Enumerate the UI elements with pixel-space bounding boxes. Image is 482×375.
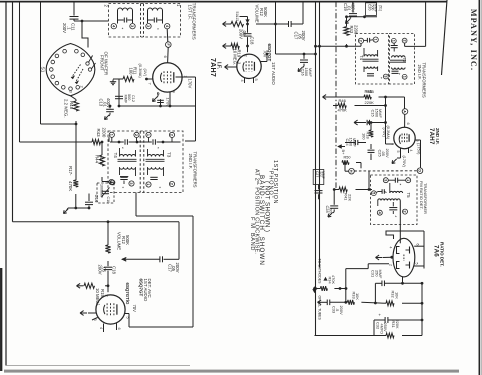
svg-text:200V: 200V bbox=[385, 149, 390, 158]
svg-text:*: * bbox=[399, 72, 401, 77]
wire y=268.6 bbox=[346, 268, 368, 270]
bottom cathode bus with R31 220K in series bbox=[315, 335, 387, 337]
T4 bottom capacitor and pins bbox=[120, 176, 128, 178]
svg-text:51&13: 51&13 bbox=[235, 12, 239, 22]
vertical riser x=345.8 bbox=[345, 269, 347, 303]
svg-text:(0.3MA): (0.3MA) bbox=[386, 126, 390, 140]
svg-text:C14: C14 bbox=[94, 195, 99, 203]
wire y=97 with chassis arrow to V4 plate line bbox=[323, 96, 330, 98]
svg-text:T3: T3 bbox=[402, 58, 407, 64]
svg-text:TRANSFORMERS: TRANSFORMERS bbox=[193, 152, 198, 188]
svg-text:FRONT: FRONT bbox=[99, 55, 104, 71]
svg-text:3: 3 bbox=[93, 319, 97, 321]
circled pin 1 (FM T3) bbox=[391, 38, 396, 43]
tube V2 6SQ7GT 1st audio bbox=[237, 54, 261, 78]
svg-text:1ST I.F.: 1ST I.F. bbox=[187, 5, 192, 20]
V2 grid stub with chassis arrow (left) bbox=[232, 66, 237, 68]
svg-text:MMF: MMF bbox=[378, 109, 383, 118]
svg-text:F: F bbox=[166, 43, 170, 46]
svg-text:MMF: MMF bbox=[378, 270, 383, 279]
volume control R12 500K (upper) with chassis arrow bbox=[223, 23, 230, 25]
circled pin 2 (FM T4) bbox=[358, 38, 363, 43]
capacitor C12 500MMF bbox=[115, 95, 123, 97]
volume wiper tap bbox=[246, 23, 249, 26]
svg-text:C12: C12 bbox=[131, 95, 135, 102]
svg-text:MMF: MMF bbox=[321, 171, 325, 179]
svg-text:5: 5 bbox=[254, 79, 258, 81]
svg-text:47K: 47K bbox=[99, 157, 104, 165]
2nd IF transformers dashed box bbox=[108, 131, 183, 193]
svg-text:22K: 22K bbox=[348, 194, 353, 201]
2nd IF box centre dashed dividers bbox=[139, 131, 141, 193]
main junction bus under V1 bbox=[118, 105, 121, 108]
svg-text:3: 3 bbox=[383, 75, 387, 77]
svg-text:200V: 200V bbox=[238, 29, 243, 39]
svg-text:3: 3 bbox=[69, 91, 74, 94]
svg-text:100: 100 bbox=[362, 133, 367, 140]
svg-text:*: * bbox=[122, 186, 124, 191]
1st IF primary coil bbox=[118, 8, 133, 10]
svg-text:MPANY, INC.: MPANY, INC. bbox=[469, 9, 478, 71]
svg-text:500K: 500K bbox=[125, 235, 130, 245]
svg-text:400V: 400V bbox=[350, 3, 355, 13]
T5 bottom capacitor and pins bbox=[389, 207, 397, 209]
svg-text:2: 2 bbox=[104, 5, 109, 8]
svg-text:2: 2 bbox=[243, 55, 248, 58]
circled terminal H with dashed link to D bbox=[349, 168, 355, 174]
svg-text:T4: T4 bbox=[359, 55, 364, 61]
switch contact circles bbox=[63, 49, 67, 53]
wire bus down to volume control bbox=[107, 222, 109, 245]
vertical link R45/R46 junctions down to V4 grid bbox=[385, 97, 387, 144]
svg-text:1: 1 bbox=[146, 183, 150, 185]
FM T4 pin capacitor bbox=[366, 38, 368, 43]
resistor R11 100 at V1 grid return bbox=[123, 76, 134, 81]
svg-text:*: * bbox=[122, 146, 124, 151]
FM 2nd IF transformer T3 dashed box bbox=[390, 34, 415, 85]
main vertical bus wire B+ (left of pair) bbox=[315, 2, 317, 336]
svg-text:(1V): (1V) bbox=[143, 69, 148, 77]
svg-text:6: 6 bbox=[117, 328, 121, 330]
svg-text:2: 2 bbox=[105, 295, 110, 298]
tube V1 7AH7 I.F. bbox=[153, 63, 182, 92]
svg-text:TRANSFORMERS: TRANSFORMERS bbox=[192, 3, 197, 40]
svg-text:5: 5 bbox=[396, 151, 400, 153]
page frame: left inner border line (turns into bus at y=222) bbox=[12, 1, 14, 222]
svg-text:S1: S1 bbox=[40, 67, 46, 73]
svg-text:OF ALL TUBES: OF ALL TUBES bbox=[317, 296, 321, 321]
circled terminal F bbox=[166, 42, 172, 48]
svg-text:200V: 200V bbox=[62, 23, 67, 33]
FM 2nd IF transformer T4 dashed box bbox=[356, 34, 389, 85]
svg-text:*: * bbox=[122, 27, 124, 32]
svg-text:6SQ7GT/G: 6SQ7GT/G bbox=[125, 283, 130, 306]
V5 grid stub with chassis arrow bbox=[390, 256, 393, 259]
band switch S1 wafer outline bbox=[46, 44, 95, 96]
svg-text:2.2 MEG.: 2.2 MEG. bbox=[64, 99, 69, 118]
T5 secondary long coil bbox=[378, 199, 400, 201]
V4 plate wire down to circled D bbox=[415, 139, 421, 141]
capacitor C18 .05 200V (lower) bbox=[107, 261, 109, 266]
circled pin 4 on trimmer box bbox=[110, 180, 115, 185]
trimmer C10 100MMF dashed box bbox=[97, 183, 114, 203]
resistor R33 10K bbox=[346, 301, 348, 303]
tube V5 7A6 ratio det (oval envelope) bbox=[393, 238, 415, 277]
svg-text:6: 6 bbox=[163, 56, 168, 59]
wire F to V1 grid bbox=[167, 47, 170, 62]
1st IF primary capacitor bbox=[118, 19, 124, 21]
svg-text:6: 6 bbox=[416, 244, 420, 246]
svg-text:220K: 220K bbox=[395, 320, 400, 329]
wire vertical from top border to R43 bus bbox=[19, 2, 21, 142]
svg-text:100: 100 bbox=[128, 68, 133, 76]
wire vertical from top border to R48 junction bbox=[40, 2, 42, 124]
V1 plate wire to 2nd IF transformer bbox=[176, 76, 196, 78]
svg-text:3: 3 bbox=[146, 25, 150, 27]
svg-text:200V: 200V bbox=[97, 265, 102, 275]
capacitor C28 .005 with chassis arrow bbox=[333, 190, 335, 205]
svg-text:2: 2 bbox=[402, 40, 406, 42]
circled pins 3 and 4 (secondary) bbox=[147, 20, 149, 23]
junction R48 bottom / wire to left vertical bbox=[75, 123, 78, 126]
svg-text:T3: T3 bbox=[166, 152, 171, 158]
svg-text:1: 1 bbox=[402, 76, 406, 78]
svg-text:(175V): (175V) bbox=[416, 143, 420, 155]
V5 cathode stub down to C31 wire bbox=[402, 277, 404, 284]
svg-text:H: H bbox=[349, 170, 353, 173]
svg-text:R11: R11 bbox=[133, 67, 138, 75]
svg-text:10 MEG.: 10 MEG. bbox=[232, 49, 237, 66]
resistor R15 10MEG with ground bbox=[107, 284, 110, 287]
svg-text:OF WAFER: OF WAFER bbox=[104, 52, 109, 76]
circled pin 1 (T5 top) bbox=[406, 178, 411, 183]
svg-text:470K: 470K bbox=[68, 181, 73, 191]
1st IF secondary capacitor bbox=[148, 19, 154, 21]
svg-text:10K: 10K bbox=[394, 292, 399, 299]
vertical from C31 down to R33 row bbox=[374, 283, 376, 303]
capacitor C14 bbox=[88, 207, 91, 210]
svg-text:TO CATHODES: TO CATHODES bbox=[317, 259, 321, 285]
svg-text:A: A bbox=[403, 110, 407, 113]
svg-text:2: 2 bbox=[134, 134, 138, 136]
svg-text:R44: R44 bbox=[95, 155, 100, 164]
B+ arrow tap bbox=[338, 146, 345, 148]
V1 cathode stub pin3 ground bbox=[157, 92, 159, 96]
capacitor C17 .05 200V (upper) to top border bbox=[288, 21, 290, 27]
svg-text:C18: C18 bbox=[112, 266, 117, 274]
chassis partition dash-dot line bbox=[335, 2, 337, 188]
svg-text:TRANSFORMER: TRANSFORMER bbox=[423, 183, 428, 214]
svg-text:70V: 70V bbox=[132, 305, 137, 313]
svg-text:4: 4 bbox=[240, 80, 244, 82]
FM T3 coil with core bbox=[392, 56, 406, 58]
circled pin 2 (T4 top) bbox=[134, 132, 139, 137]
svg-text:1: 1 bbox=[146, 134, 150, 136]
audio coupling loop right side bbox=[178, 222, 180, 259]
svg-text:470K: 470K bbox=[331, 275, 336, 284]
svg-text:DET. AVC: DET. AVC bbox=[147, 279, 152, 298]
svg-text:5: 5 bbox=[371, 192, 375, 194]
1st IF box centre dashed divider bbox=[140, 4, 142, 38]
capacitor C16 1500MMF with chassis arrow bbox=[303, 53, 306, 56]
FM T3 bottom capacitor and pin bbox=[392, 70, 399, 72]
page frame: skewed column-edge line top right bbox=[442, 0, 448, 75]
resistor R19 10MEG grid leak with chassis arrow bbox=[246, 45, 249, 48]
circled pin 1 (T4 top) bbox=[109, 132, 114, 137]
svg-text:2ND I.F.: 2ND I.F. bbox=[435, 128, 440, 145]
svg-text:+: + bbox=[377, 314, 382, 317]
capacitor C11 (.1 200V) bbox=[73, 2, 75, 16]
wire bus to FM IF transformer bbox=[316, 45, 362, 47]
wire C11 junction to 1st IF box bbox=[82, 20, 109, 22]
tube V4 7AH7 2nd IF bbox=[394, 127, 415, 148]
svg-text:1: 1 bbox=[406, 179, 410, 181]
capacitor C25 .05 200V bbox=[368, 149, 375, 151]
V1 pin4 stub to bus bbox=[169, 92, 171, 106]
V3 grid return ground (left) bbox=[88, 312, 96, 314]
svg-text:.005: .005 bbox=[328, 207, 333, 215]
svg-text:1: 1 bbox=[97, 304, 101, 306]
svg-text:R50: R50 bbox=[344, 156, 351, 160]
svg-text:2ND I.F.: 2ND I.F. bbox=[188, 154, 193, 170]
wire from volume junction down and right (plate supply loop) bbox=[275, 2, 277, 54]
audio coupling loop bottom with C17 bbox=[164, 258, 180, 260]
wire through T4/T3 with series capacitors bbox=[110, 141, 124, 143]
svg-text:2: 2 bbox=[403, 211, 407, 213]
junction volume to C17 coupling bbox=[274, 23, 277, 26]
V3 bottom pin stubs bbox=[103, 324, 105, 333]
wire C19 junction bbox=[347, 16, 378, 18]
svg-text:1: 1 bbox=[109, 134, 113, 136]
svg-text:MMF: MMF bbox=[124, 95, 128, 104]
svg-text:4: 4 bbox=[389, 247, 393, 249]
svg-text:6: 6 bbox=[406, 123, 410, 125]
circled pin 5 (T5 left) bbox=[371, 191, 376, 196]
resistor R48 2.2MEG bbox=[71, 96, 77, 100]
svg-text:2: 2 bbox=[170, 183, 174, 185]
capacitor C33 .5 200V with chassis arrow bbox=[318, 301, 325, 303]
svg-text:70V: 70V bbox=[263, 50, 268, 58]
svg-text:2: 2 bbox=[389, 264, 393, 266]
svg-text:2: 2 bbox=[359, 40, 363, 42]
T5 top capacitor bbox=[388, 179, 395, 181]
T5 primary coil bbox=[390, 191, 403, 193]
main bus wire y=222 from left border bbox=[13, 221, 180, 223]
svg-text:*: * bbox=[400, 183, 402, 188]
svg-text:*: * bbox=[381, 76, 383, 81]
circled pin 2 (T3 top) bbox=[169, 132, 174, 137]
wire R48 junction down to R17 bbox=[75, 124, 77, 180]
FM T4 bottom capacitor and pin bbox=[367, 73, 374, 75]
V2 plate stub to supply loop bbox=[260, 61, 267, 63]
pin stubs from circles to wire bbox=[111, 137, 113, 142]
circled pin 2 (FM T3) bbox=[402, 38, 407, 43]
svg-text:(75V): (75V) bbox=[382, 128, 386, 138]
svg-text:4: 4 bbox=[171, 91, 176, 94]
V5 right-side box wires pin6/pin5 bbox=[400, 230, 424, 232]
resistor R43 2200 bbox=[92, 139, 100, 144]
V1 cathode bypass capacitor bbox=[160, 99, 162, 106]
svg-text:1ST AUDIO: 1ST AUDIO bbox=[271, 62, 276, 85]
wire R11 junction down to C12/C13 bus bbox=[118, 79, 120, 106]
page frame: left outer border line bbox=[5, 1, 7, 366]
switch rotor dashed arrows bbox=[76, 69, 84, 83]
circled terminal D bbox=[417, 168, 423, 174]
page frame: right margin grey edge bbox=[481, 0, 482, 375]
svg-text:*: * bbox=[157, 146, 159, 151]
tube V3 6SQ7GT det-avc-1st audio bbox=[96, 295, 125, 324]
svg-text:D: D bbox=[418, 169, 422, 172]
resistor R17-470K bbox=[73, 180, 78, 187]
svg-text:*: * bbox=[159, 186, 161, 191]
wire bus to R43 bbox=[20, 141, 93, 143]
svg-text:4: 4 bbox=[99, 327, 103, 329]
svg-text:7: 7 bbox=[148, 83, 153, 86]
capacitor C18 .05 (upper) in wiper line bbox=[247, 24, 249, 33]
circled pin 1 (FM T4) bbox=[373, 37, 378, 42]
svg-text:1: 1 bbox=[373, 39, 377, 41]
V5 feed jog from T5 to grid bbox=[386, 231, 400, 239]
svg-text:2: 2 bbox=[170, 134, 174, 136]
svg-text:200V: 200V bbox=[339, 306, 344, 315]
svg-text:3: 3 bbox=[383, 179, 387, 181]
capacitor C19 .01 400V from top border bbox=[352, 2, 354, 13]
svg-text:MMF: MMF bbox=[308, 68, 313, 77]
svg-text:R43: R43 bbox=[96, 129, 101, 138]
svg-text:F M BAND: F M BAND bbox=[249, 217, 255, 251]
resistor R44 47K hanging from bus bbox=[101, 141, 104, 144]
circled pin 3 (T5 top) bbox=[383, 178, 388, 183]
audio outer wire from 2nd IF box down and around bbox=[135, 193, 137, 217]
svg-text:3: 3 bbox=[237, 62, 241, 64]
T4 transformer coils with core bbox=[120, 155, 136, 157]
svg-text:170V: 170V bbox=[166, 98, 171, 108]
svg-text:250V: 250V bbox=[383, 323, 388, 332]
svg-text:10K: 10K bbox=[355, 293, 360, 300]
svg-text:4: 4 bbox=[409, 150, 413, 152]
svg-text:500K: 500K bbox=[263, 7, 268, 17]
svg-text:5: 5 bbox=[126, 317, 130, 319]
wire C11 junction down to band switch bbox=[82, 21, 88, 48]
wire from x=368 elbow to V5 bbox=[368, 263, 389, 265]
V3 plate wire to output (pin 5) bbox=[125, 313, 129, 315]
svg-text:*: * bbox=[395, 215, 397, 220]
V2 bottom pin stubs bbox=[244, 78, 246, 84]
svg-text:T4: T4 bbox=[113, 153, 118, 159]
svg-text:100MMF: 100MMF bbox=[100, 184, 104, 199]
V5 internals: diode plates and cathodes bbox=[397, 247, 400, 254]
svg-text:7: 7 bbox=[389, 143, 393, 145]
resistor R18 100 bbox=[370, 121, 373, 124]
1st IF transformers dashed box bbox=[109, 4, 181, 38]
svg-text:200V: 200V bbox=[175, 263, 180, 273]
T3 bottom capacitor and pins bbox=[150, 176, 157, 178]
right riser x=422 with junctions bbox=[421, 283, 423, 335]
svg-text:4: 4 bbox=[111, 25, 115, 28]
switch wiper contacts and leads bbox=[86, 62, 89, 65]
svg-text:1: 1 bbox=[391, 40, 395, 42]
1st IF secondary coil bbox=[148, 8, 163, 10]
svg-text:7AH7: 7AH7 bbox=[209, 58, 216, 77]
T5 FM ratio det transformer dashed box bbox=[371, 175, 418, 225]
svg-text:MMF: MMF bbox=[374, 4, 378, 12]
svg-text:R17-: R17- bbox=[68, 166, 73, 176]
volume control R12 500K bbox=[105, 245, 110, 253]
svg-text:R45: R45 bbox=[367, 89, 375, 94]
svg-text:(170V): (170V) bbox=[402, 156, 406, 168]
capacitor C31 250MMF in cathode line bbox=[375, 282, 382, 284]
resistor R43 2200 (FM plate load) bbox=[346, 17, 348, 27]
svg-text:2: 2 bbox=[80, 86, 85, 89]
capacitor C13 .01 400V with ground bbox=[109, 106, 111, 108]
page frame: scan edge black strip bottom-left bbox=[0, 268, 2, 371]
resistor R45 220K bbox=[364, 95, 371, 100]
svg-text:MMF: MMF bbox=[352, 138, 357, 147]
svg-text:RATIO DET.: RATIO DET. bbox=[440, 242, 445, 267]
FM T3 top capacitor bbox=[391, 45, 398, 47]
svg-text:3: 3 bbox=[130, 25, 134, 27]
circled pin 1 (T3 top) bbox=[146, 132, 151, 137]
page frame: bottom grey scan bar bbox=[4, 370, 459, 373]
capacitor C24 1500MMF bbox=[345, 142, 355, 144]
junction of detector riser bbox=[368, 188, 371, 191]
svg-text:7AH7: 7AH7 bbox=[428, 128, 435, 145]
junction and ground below R17 bbox=[74, 207, 77, 210]
C19 chassis arrow bbox=[346, 19, 351, 24]
circled terminal A above V4 bbox=[404, 97, 406, 109]
V4 cathode stubs with ground bbox=[400, 148, 402, 158]
electrolytic C32 4MFD 250V bbox=[374, 319, 385, 321]
main vertical bus wire (right of pair) bbox=[319, 2, 321, 268]
svg-text:*: * bbox=[157, 27, 159, 32]
capacitor C15 1500MMF with chassis arrow bbox=[354, 122, 361, 124]
wire FM T3 pin2 to plate supply riser bbox=[404, 43, 406, 46]
svg-text:4: 4 bbox=[165, 25, 169, 28]
svg-text:3: 3 bbox=[129, 182, 133, 184]
svg-text:7A6: 7A6 bbox=[433, 245, 440, 257]
circled pins 4 and 3 (primary) bbox=[117, 20, 119, 24]
page frame: right border line bbox=[478, 0, 480, 375]
svg-text:B+: B+ bbox=[341, 150, 346, 156]
svg-text:500: 500 bbox=[127, 94, 131, 100]
svg-text:TRANSFORMERS: TRANSFORMERS bbox=[421, 63, 426, 98]
wire y=105.5 with resistor R46 470K bbox=[333, 105, 338, 107]
svg-text:220K: 220K bbox=[365, 100, 375, 105]
page frame: top border line bbox=[0, 1, 447, 3]
svg-text:C18: C18 bbox=[250, 37, 255, 45]
T5 centre tap wire down to V5 bbox=[399, 201, 401, 244]
wire secondary pin 4 down to circled F bbox=[166, 29, 169, 42]
svg-text:5: 5 bbox=[415, 263, 419, 265]
svg-text:I.F.: I.F. bbox=[216, 62, 222, 69]
FM T4 coil with core bbox=[364, 55, 378, 57]
resistor R50 bbox=[342, 160, 349, 165]
ground at R11 bbox=[112, 80, 114, 82]
svg-text:200V: 200V bbox=[301, 31, 306, 41]
svg-text:470K: 470K bbox=[338, 108, 348, 113]
V3 lower-left ground stub bbox=[92, 318, 98, 321]
svg-text:2200: 2200 bbox=[101, 128, 106, 138]
svg-text:T5: T5 bbox=[406, 193, 411, 199]
svg-text:R46: R46 bbox=[339, 98, 347, 103]
svg-text:(51): (51) bbox=[379, 5, 383, 11]
label R34 470K with wiper tick bbox=[324, 278, 327, 281]
T3 transformer coils with core bbox=[148, 155, 164, 157]
svg-text:C10: C10 bbox=[106, 197, 110, 204]
resistor R34 470K from cathode bus bbox=[313, 287, 316, 290]
resistor R41 22K on AVC line bbox=[334, 189, 339, 191]
svg-text:170V: 170V bbox=[187, 79, 192, 89]
